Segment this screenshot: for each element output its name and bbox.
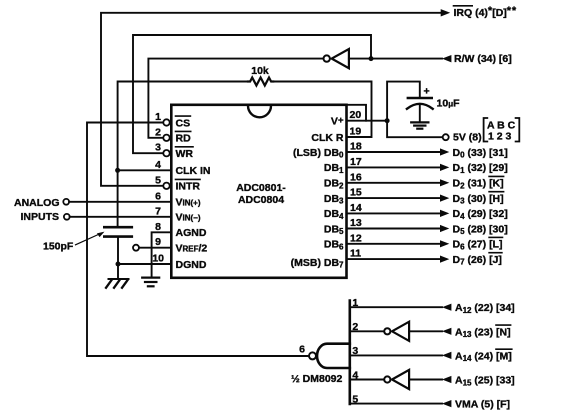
pin 6 number bbox=[155, 190, 161, 202]
capacitor C1 150pF plates bbox=[104, 226, 132, 229]
inverter on A15 line: bubble left, triangle bbox=[384, 376, 390, 382]
pin 5 INTR bubble bbox=[163, 183, 169, 189]
capacitor C1 value label 150pF bbox=[43, 241, 74, 253]
pin 16 number bbox=[350, 171, 362, 183]
node junction dot V+ / 5V riser bbox=[385, 118, 390, 123]
svg-text:8: 8 bbox=[155, 221, 161, 233]
svg-text:+: + bbox=[424, 86, 430, 98]
wire DB5 pin 13 bbox=[348, 228, 441, 230]
pin 1 CS bubble bbox=[163, 119, 169, 125]
svg-text:19: 19 bbox=[350, 126, 362, 138]
NAND gate U2 label 1/2 DM8092 bbox=[291, 373, 343, 385]
pin 18 number bbox=[350, 141, 362, 153]
net label A12 (22) [34] bbox=[455, 302, 515, 315]
net label D2 (31) [K] bbox=[453, 178, 504, 191]
svg-text:ANALOG: ANALOG bbox=[14, 197, 60, 209]
svg-text:4: 4 bbox=[155, 159, 161, 171]
svg-text:D7 (26) [J]: D7 (26) [J] bbox=[453, 254, 502, 267]
svg-text:RD: RD bbox=[176, 133, 192, 145]
NAND gate U2 output pin 6 number bbox=[299, 344, 305, 356]
node junction dot R/W - WR bbox=[369, 56, 374, 61]
svg-text:CLK R: CLK R bbox=[311, 132, 343, 144]
svg-text:9: 9 bbox=[155, 236, 161, 248]
svg-text:R/W (34) [6]: R/W (34) [6] bbox=[454, 53, 512, 65]
net label R/W (34) [6] bbox=[454, 53, 512, 65]
wire DGND pin 10 to capacitor ground node bbox=[118, 263, 171, 265]
svg-text:VREF/2: VREF/2 bbox=[176, 243, 208, 255]
wire 5V supply: terminal left and riser up to bypass cap bbox=[387, 82, 443, 138]
pin 11 label (MSB) DB7 bbox=[291, 257, 344, 270]
pin 13 label DB5 bbox=[324, 223, 344, 236]
svg-text:CS: CS bbox=[176, 117, 191, 129]
wire VIN(+) analog input to pin 6 bbox=[69, 201, 171, 203]
IC U1 top notch bbox=[248, 106, 271, 118]
svg-text:V+: V+ bbox=[331, 115, 344, 128]
pin 20 cell tick bbox=[347, 105, 367, 121]
svg-text:(MSB) DB7: (MSB) DB7 bbox=[291, 257, 344, 270]
net label D6 (27) [L] bbox=[453, 239, 503, 252]
svg-text:VIN(+): VIN(+) bbox=[176, 197, 201, 209]
wire DB6 pin 12 bbox=[348, 243, 441, 245]
arrowhead A14 input (points left) bbox=[442, 352, 451, 359]
arrowhead D2 (points right) bbox=[440, 179, 449, 186]
wire VIN(-) analog input to pin 7 bbox=[70, 216, 172, 218]
pin 9 label VREF/2 bbox=[176, 243, 208, 255]
svg-text:3: 3 bbox=[155, 142, 161, 154]
resistor R1 value label 10k bbox=[251, 65, 269, 77]
gate pin 5 number bbox=[352, 393, 358, 405]
capacitor C2 value label 10uF bbox=[437, 98, 461, 110]
node junction dot CLK IN / 150pF bbox=[115, 168, 120, 173]
svg-text:(LSB) DB0: (LSB) DB0 bbox=[293, 147, 344, 160]
NAND gate U2 1/2 DM8092 input bus bbox=[348, 301, 351, 405]
svg-text:10μF: 10μF bbox=[437, 98, 461, 110]
pin 15 number bbox=[350, 187, 362, 199]
pin 3 number bbox=[155, 142, 161, 154]
pin 13 number bbox=[350, 217, 362, 229]
pin 3 label WR (overline) bbox=[176, 148, 194, 160]
wire DB3 pin 15 bbox=[348, 197, 441, 199]
svg-text:INPUTS: INPUTS bbox=[20, 211, 59, 223]
arrowhead D4 (points right) bbox=[440, 210, 449, 217]
pin 11 number bbox=[350, 248, 361, 260]
svg-text:1: 1 bbox=[352, 297, 358, 309]
svg-text:CLK IN: CLK IN bbox=[176, 165, 211, 177]
arrowhead D1 (points right) bbox=[440, 164, 449, 171]
net label D0 (33) [31] bbox=[453, 147, 508, 160]
wire DB1 pin 17 bbox=[348, 166, 441, 168]
inverter gate on R/W line (bubble left) bbox=[324, 55, 330, 61]
wire 10k right end down to CLK R pin 19 bbox=[273, 82, 371, 138]
svg-text:INTR: INTR bbox=[176, 181, 201, 193]
arrowhead D5 (points right) bbox=[440, 225, 449, 232]
pin 5 number bbox=[155, 174, 161, 186]
overline bars for active-low names bbox=[176, 6, 512, 349]
wire R/W line from inverter to arrowhead bbox=[349, 58, 442, 60]
wire 150pF bottom plate to chassis ground bbox=[117, 238, 119, 279]
svg-text:14: 14 bbox=[350, 202, 362, 214]
NAND gate U2 output bubble bbox=[309, 352, 316, 359]
pin 17 number bbox=[350, 156, 362, 168]
arrowhead D3 (points right) bbox=[440, 195, 449, 202]
arrowhead D6 (points right) bbox=[440, 240, 449, 247]
svg-text:WR: WR bbox=[176, 148, 194, 160]
wire CLK IN node down to 150pF top plate bbox=[117, 170, 119, 226]
wire DB4 pin 14 bbox=[348, 212, 441, 214]
pin 9 VREF/2 terminal circle bbox=[133, 245, 139, 251]
node junction dot 150pF / DGND bbox=[116, 262, 121, 267]
pin 6 label VIN(+) bbox=[176, 197, 201, 209]
pin 7 label VIN(-) bbox=[176, 212, 201, 224]
svg-text:½ DM8092: ½ DM8092 bbox=[291, 373, 343, 385]
pin 19 label CLK R bbox=[311, 132, 343, 144]
net label D7 (26) [J] bbox=[453, 254, 502, 267]
wire CLK IN: pin4 to left riser up to 10k resistor bbox=[118, 82, 248, 171]
svg-text:16: 16 bbox=[350, 171, 362, 183]
pin 2 number bbox=[155, 126, 161, 138]
pin 14 number bbox=[350, 202, 362, 214]
pin 17 label DB1 bbox=[324, 162, 344, 175]
net label D3 (30) [H] bbox=[453, 193, 504, 206]
wire gate input 2 from bus to inverter bbox=[350, 330, 384, 332]
capacitor C2 plus sign bbox=[424, 86, 430, 98]
svg-text:1 2 3: 1 2 3 bbox=[488, 130, 512, 142]
pin 8 number bbox=[155, 221, 161, 233]
ground (chassis) symbol below 150pF bbox=[106, 279, 129, 288]
net label IRQ (4)*[D]** bbox=[454, 5, 517, 19]
wire gate input 3 A14 bbox=[350, 354, 442, 356]
net label D5 (28) [30] bbox=[453, 223, 508, 236]
arrowhead D7 (points right) bbox=[440, 256, 449, 263]
pin 2 RD bubble bbox=[163, 135, 169, 141]
pin 18 label (LSB) DB0 bbox=[293, 147, 344, 160]
arrowhead VMA input (points left) bbox=[442, 400, 451, 407]
label ANALOG INPUTS bbox=[14, 197, 60, 223]
net label D4 (29) [32] bbox=[453, 208, 508, 221]
arrowhead A15 input (points left) bbox=[442, 376, 451, 383]
svg-text:DGND: DGND bbox=[176, 259, 207, 271]
svg-text:5: 5 bbox=[155, 174, 161, 186]
IC U1 ADC0801-ADC0804 body bbox=[171, 105, 346, 278]
wire INTR: pin5 bubble left, up, right to IRQ arrow bbox=[101, 13, 441, 186]
capacitor C2 10uF polarized: top plate bbox=[408, 97, 432, 100]
svg-text:15: 15 bbox=[350, 187, 362, 199]
ground (earth) symbol at AGND bbox=[142, 278, 159, 287]
leader arrow from 150pF label to capacitor bbox=[76, 234, 101, 245]
bracket note [A B C / 1 2 3] bbox=[487, 120, 516, 143]
pin 2 label RD (overline) bbox=[176, 133, 192, 145]
svg-text:10k: 10k bbox=[251, 65, 269, 77]
pin 1 label CS (overline) bbox=[176, 117, 191, 129]
pin 14 label DB4 bbox=[324, 208, 344, 221]
pin 9 number bbox=[155, 236, 161, 248]
pin 16 label DB2 bbox=[324, 178, 344, 191]
svg-text:VIN(−): VIN(−) bbox=[176, 212, 201, 224]
wire 10uF bottom plate to ground bbox=[419, 106, 421, 122]
pin 6 VIN(+) input terminal circle bbox=[63, 199, 69, 205]
svg-text:5V (8): 5V (8) bbox=[453, 132, 482, 144]
svg-text:5: 5 bbox=[352, 393, 358, 405]
svg-text:2: 2 bbox=[155, 126, 161, 138]
gate pin 4 number bbox=[352, 369, 358, 381]
wire CS: pin1 bubble left to vertical, down to NAND gate output row bbox=[87, 123, 309, 357]
wire DB7 pin 11 bbox=[348, 258, 441, 260]
wire DB0 pin 18 bbox=[348, 151, 441, 153]
wire gate input 4 from bus to inverter bbox=[350, 379, 384, 381]
svg-text:ADC0801-: ADC0801- bbox=[236, 182, 286, 194]
svg-text:10: 10 bbox=[152, 253, 164, 265]
pin 8 label AGND bbox=[176, 227, 207, 239]
arrowhead A12 input (points left) bbox=[442, 304, 451, 311]
pin 4 label CLK IN bbox=[176, 165, 211, 177]
pin 10 label DGND bbox=[176, 259, 207, 271]
svg-text:150pF: 150pF bbox=[43, 241, 74, 253]
net label VMA (5) [F] bbox=[455, 399, 510, 411]
pin 1 number bbox=[155, 111, 161, 123]
svg-text:2: 2 bbox=[352, 321, 358, 333]
pin 20 V+ wire to 5V riser bbox=[347, 120, 388, 122]
arrowhead R/W input (points left) bbox=[442, 55, 451, 62]
inverter on A13 line: bubble left, triangle bbox=[384, 328, 390, 334]
pin 4 number bbox=[155, 159, 161, 171]
net label A15 (25) [33] bbox=[455, 375, 515, 388]
svg-text:18: 18 bbox=[350, 141, 362, 153]
capacitor C2 bottom curved plate bbox=[407, 104, 433, 109]
wire gate input 5 VMA bbox=[350, 403, 442, 405]
svg-text:6: 6 bbox=[155, 190, 161, 202]
wire inverter to A15 arrowhead bbox=[409, 379, 442, 381]
arrowhead A13 input (points left) bbox=[442, 328, 451, 335]
pin 8 AGND wire to ground riser bbox=[152, 232, 172, 276]
gate pin 2 number bbox=[352, 321, 358, 333]
pin 20 number bbox=[350, 109, 362, 121]
svg-text:7: 7 bbox=[155, 205, 161, 217]
svg-text:17: 17 bbox=[350, 156, 362, 168]
svg-text:4: 4 bbox=[352, 369, 358, 381]
pin 10 number bbox=[152, 253, 164, 265]
pin 5 label INTR (overline) bbox=[176, 181, 201, 193]
svg-text:D6 (27) [L]: D6 (27) [L] bbox=[453, 239, 503, 252]
net label 5V (8) bbox=[453, 132, 482, 144]
arrowhead D0 (points right) bbox=[440, 148, 449, 155]
pin 7 number bbox=[155, 205, 161, 217]
ground (earth) symbol below 10uF bbox=[411, 122, 428, 128]
svg-text:1: 1 bbox=[155, 111, 161, 123]
pin 12 label DB6 bbox=[324, 239, 344, 252]
gate pin 3 number bbox=[352, 345, 358, 357]
svg-text:AGND: AGND bbox=[176, 227, 207, 239]
pin 12 number bbox=[350, 232, 362, 244]
wire VREF/2 to pin 9 bbox=[139, 247, 171, 249]
svg-text:VMA (5) [F]: VMA (5) [F] bbox=[455, 399, 510, 411]
pin 3 WR bubble bbox=[163, 150, 169, 156]
net label D1 (32) [29] bbox=[453, 162, 508, 175]
pin 19 number bbox=[350, 126, 362, 138]
IC U1 name label ADC0801-ADC0804 bbox=[236, 182, 286, 206]
svg-text:ADC0804: ADC0804 bbox=[238, 194, 284, 206]
gate pin 1 number bbox=[352, 297, 358, 309]
arrowhead IRQ output (points right) bbox=[441, 9, 451, 16]
pin 20 label V+ bbox=[331, 115, 344, 128]
net label A13 (23) [N] bbox=[455, 326, 511, 339]
net label A14 (24) [M] bbox=[455, 350, 512, 363]
wire RD: pin2 bubble left, up, right to inverter output bubble bbox=[148, 59, 323, 138]
pin 15 label DB3 bbox=[324, 193, 344, 206]
svg-text:20: 20 bbox=[350, 109, 362, 121]
wire WR: pin3 bubble left, up, right, down to R/W line junction bbox=[133, 35, 371, 153]
svg-text:13: 13 bbox=[350, 217, 362, 229]
wire DB2 pin 16 bbox=[348, 182, 441, 184]
pin 7 VIN(-) input terminal circle bbox=[64, 214, 70, 220]
svg-text:6: 6 bbox=[299, 344, 305, 356]
wire gate input 1 A12 bbox=[350, 306, 442, 308]
svg-text:3: 3 bbox=[352, 345, 358, 357]
svg-text:12: 12 bbox=[350, 232, 362, 244]
resistor R1 10k zigzag bbox=[248, 78, 273, 86]
power terminal circle 5V bbox=[443, 134, 449, 140]
NAND gate U2 body (flat side right, bubble left) bbox=[317, 344, 350, 368]
svg-text:11: 11 bbox=[350, 248, 361, 260]
wire inverter to A13 arrowhead bbox=[409, 330, 442, 332]
